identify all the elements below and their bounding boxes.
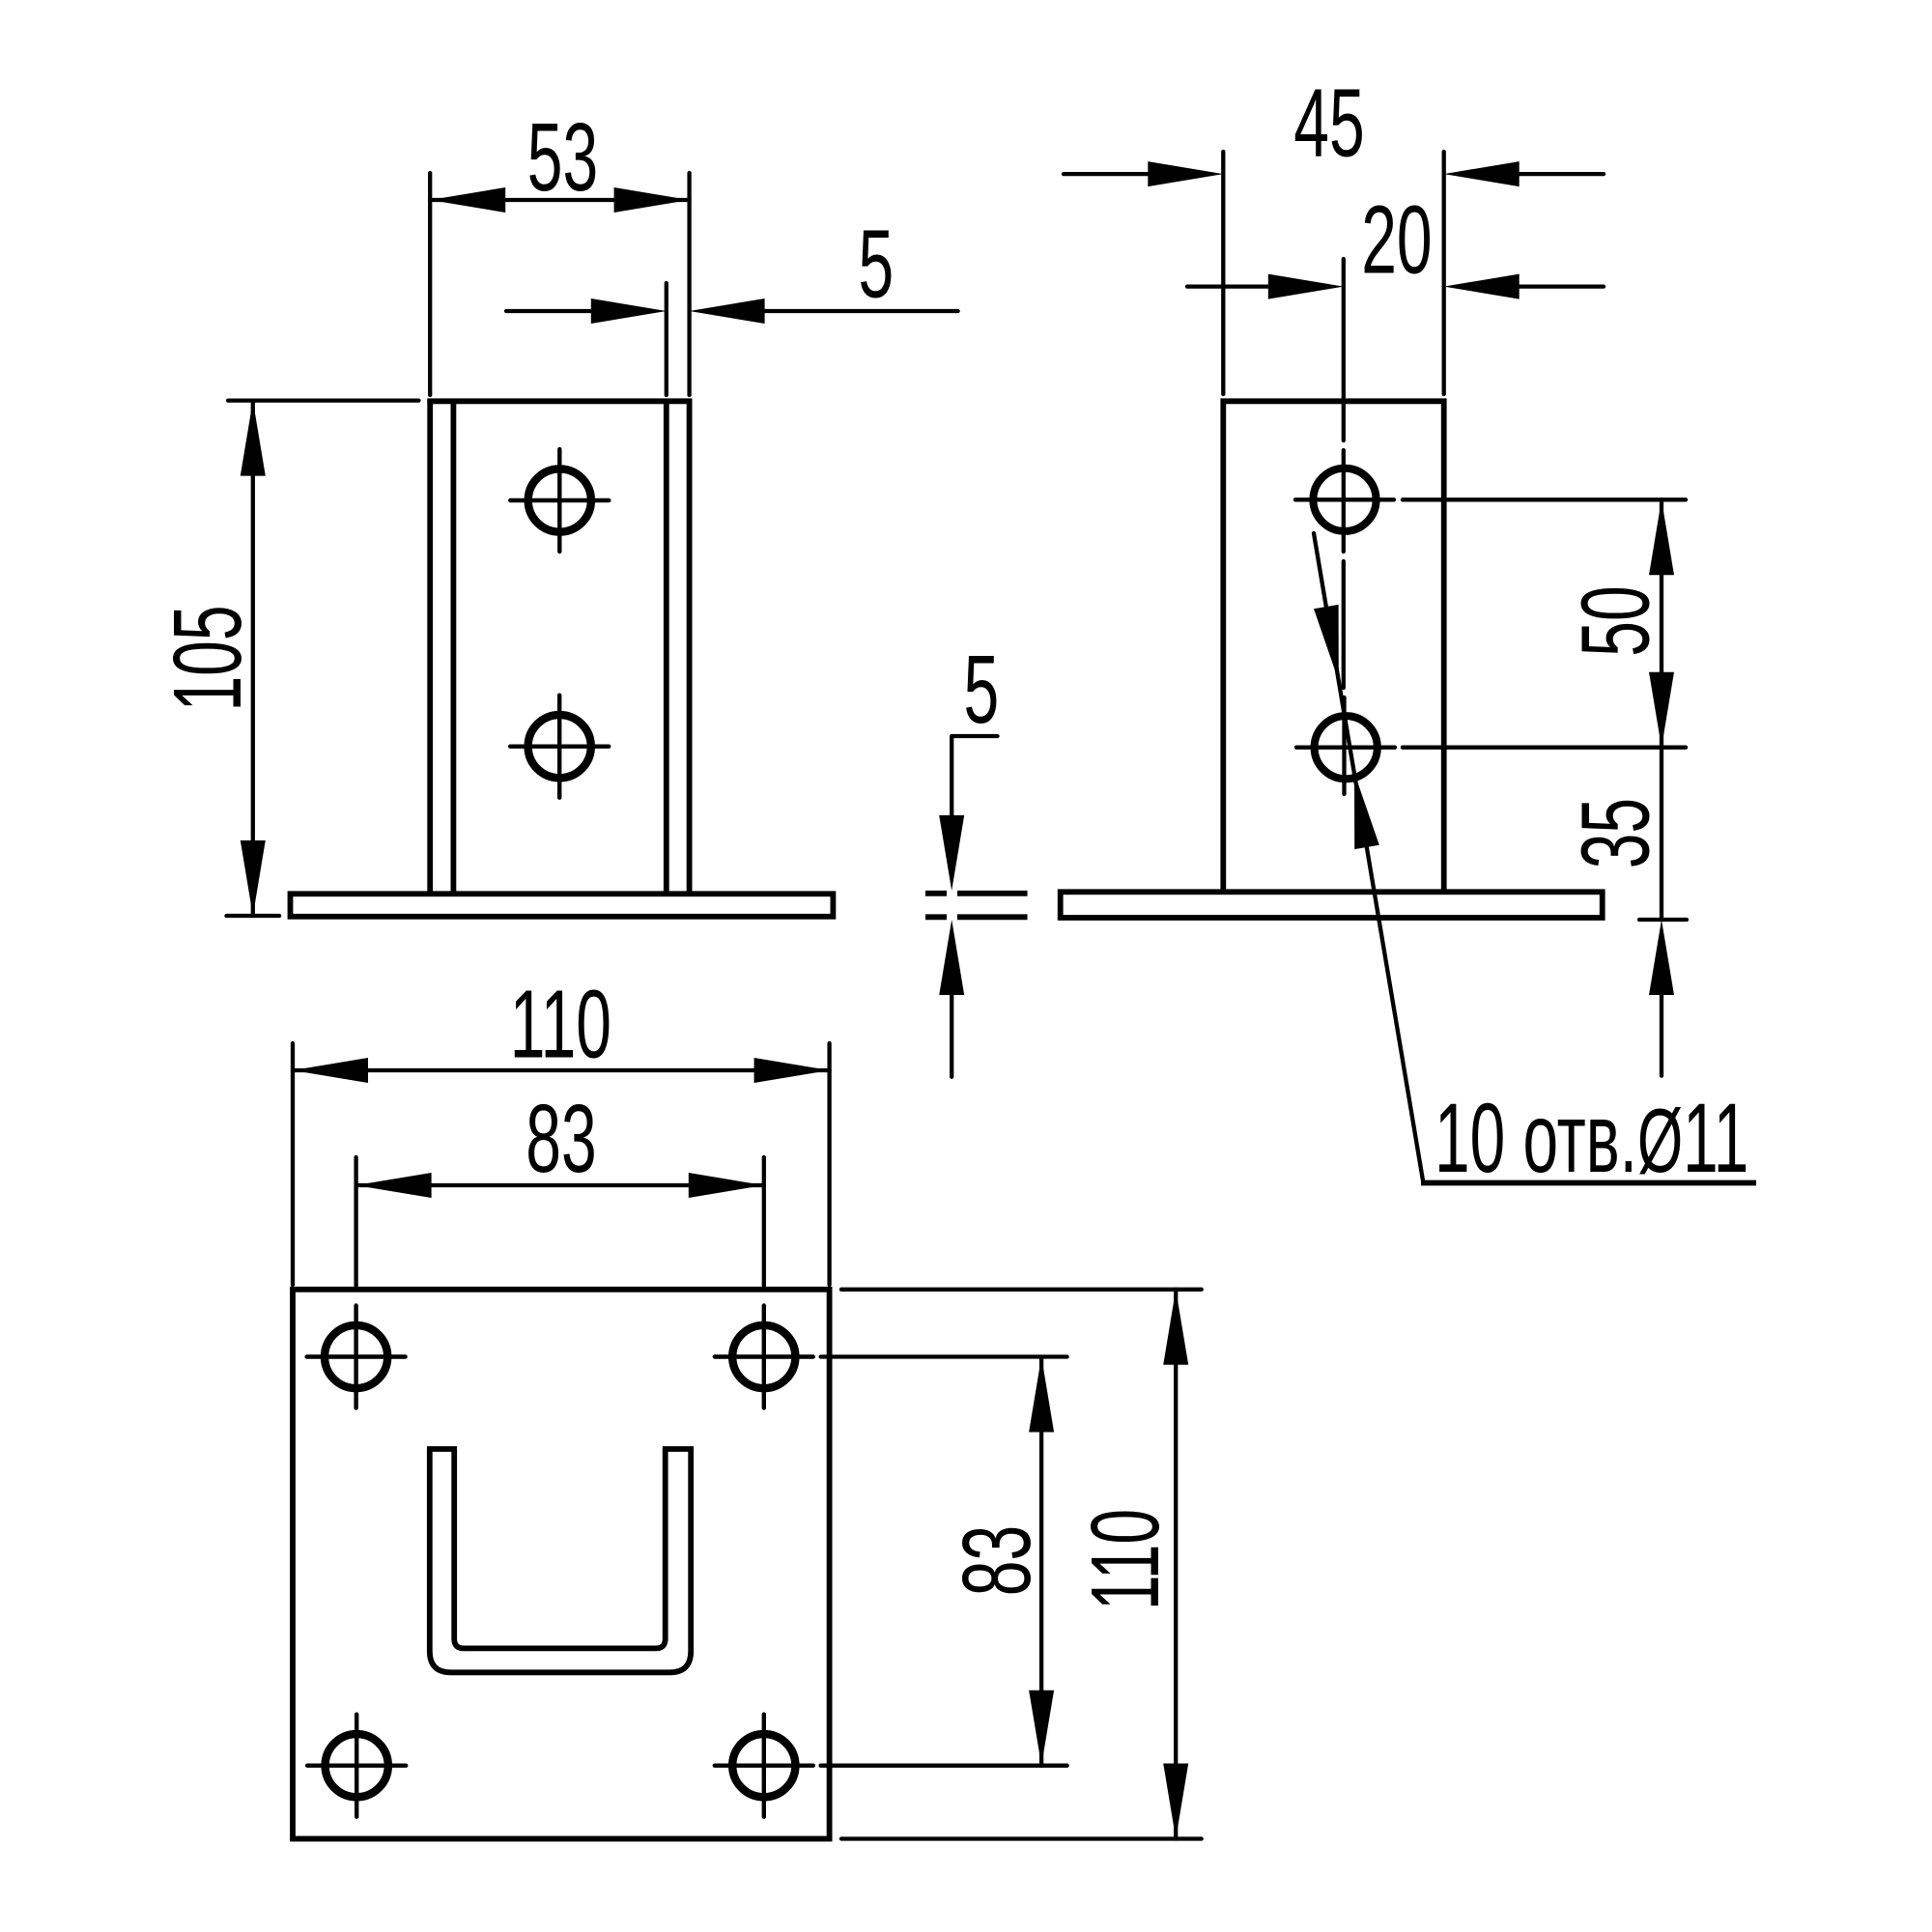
dim 5 front right tail line bbox=[764, 309, 958, 313]
dim 83 top text bbox=[526, 1084, 596, 1192]
side view vertical centerline segment 1 bbox=[1342, 259, 1346, 440]
dim 5 middle top tick bbox=[952, 734, 998, 738]
side view vertical centerline segment 2 bbox=[1342, 450, 1346, 552]
dim 45 left tail line bbox=[1064, 172, 1150, 176]
dim 83 right bottom arrowhead bbox=[1029, 1690, 1054, 1766]
leader lower arrowhead bbox=[1354, 773, 1379, 849]
hole H2 right extension line bbox=[1403, 746, 1686, 750]
dim 5 front right arrowhead bbox=[690, 298, 765, 324]
dim 110 top left arrowhead bbox=[293, 1058, 368, 1083]
front view hole H1 with center marks bbox=[510, 449, 609, 552]
dim 110 right upper extension line bbox=[841, 1288, 1202, 1292]
dim 5 middle upper arrowhead bbox=[939, 815, 964, 891]
leader text 10 otv diam 11 bbox=[1435, 1083, 1748, 1193]
svg-text:10 отв.Ø11: 10 отв.Ø11 bbox=[1435, 1083, 1748, 1193]
leader upper arrowhead bbox=[1314, 605, 1339, 681]
front view column left outer flange line bbox=[427, 399, 433, 895]
plan view channel left flange tip cap bbox=[427, 1446, 457, 1452]
dim 83 right top arrowhead bbox=[1029, 1357, 1054, 1433]
hole H1 right extension line bbox=[1403, 497, 1686, 501]
dim 53 right extension line bbox=[687, 173, 691, 395]
dim 20 left arrowhead bbox=[1268, 274, 1344, 299]
dim 35 text bbox=[1561, 798, 1669, 868]
dim 110 top text bbox=[510, 970, 611, 1078]
side view vertical centerline segment 4 bbox=[1342, 697, 1346, 794]
dim 45 right extension line bbox=[1442, 152, 1446, 394]
dim 83 top dimension line bbox=[356, 1183, 764, 1187]
dim 5 front left arrowhead bbox=[591, 298, 667, 324]
svg-text:110: 110 bbox=[1070, 1509, 1179, 1610]
leader line to holes bbox=[1314, 533, 1423, 1180]
plan view hole A with center marks bbox=[307, 1306, 406, 1408]
dim 53 left arrowhead bbox=[430, 187, 505, 213]
dim 83 top right extension line bbox=[762, 1157, 766, 1287]
dim 83 top left arrowhead bbox=[356, 1173, 432, 1198]
dim 5 front text bbox=[858, 210, 894, 318]
dim 53 text bbox=[527, 102, 598, 211]
svg-text:5: 5 bbox=[964, 635, 1000, 743]
dim 83 right upper extension line bbox=[821, 1354, 1067, 1358]
dim 105 top arrowhead bbox=[241, 401, 266, 476]
dim 105 dimension line bbox=[251, 401, 255, 916]
dim 20 left tail line bbox=[1187, 284, 1269, 288]
dim 105 top extension line bbox=[228, 398, 418, 402]
dim 83 top left extension line bbox=[354, 1157, 357, 1287]
side view column top edge bbox=[1221, 398, 1447, 404]
dim 45 right tail line bbox=[1518, 172, 1604, 176]
plan view hole D with center marks bbox=[715, 1715, 813, 1817]
plan view channel inner profile bbox=[454, 1449, 666, 1648]
svg-text:83: 83 bbox=[942, 1525, 1050, 1596]
side view hole H1 circle bbox=[1313, 469, 1376, 531]
svg-text:110: 110 bbox=[510, 970, 611, 1078]
middle plate section bottom line left part bbox=[925, 914, 947, 920]
plan view base plate outline bbox=[293, 1290, 830, 1839]
dim 53 left extension line bbox=[428, 173, 432, 395]
dim 50 bottom arrowhead bbox=[1649, 672, 1674, 748]
dim 35 dimension line bbox=[1660, 748, 1663, 920]
side view column left edge bbox=[1220, 399, 1226, 893]
dim 83 top right arrowhead bbox=[689, 1173, 764, 1198]
dim 50 text bbox=[1561, 585, 1669, 656]
svg-text:45: 45 bbox=[1293, 69, 1364, 177]
dim 5 middle upper leader line bbox=[950, 736, 953, 816]
dim 110 right text bbox=[1070, 1509, 1179, 1610]
front view column right outer flange line bbox=[687, 399, 693, 895]
svg-text:20: 20 bbox=[1361, 185, 1432, 294]
leader underline bbox=[1421, 1180, 1756, 1186]
dim 50 top arrowhead bbox=[1649, 499, 1674, 575]
dim 20 right arrowhead bbox=[1444, 274, 1520, 299]
dim 110 right top arrowhead bbox=[1163, 1290, 1188, 1365]
dim 53 dimension line bbox=[430, 198, 689, 202]
middle plate section top line right part bbox=[957, 891, 1028, 896]
dim 110 right dimension line bbox=[1174, 1290, 1178, 1839]
svg-text:53: 53 bbox=[527, 102, 598, 211]
dim 83 right lower extension line bbox=[821, 1764, 1067, 1768]
dim 110 right bottom arrowhead bbox=[1163, 1764, 1188, 1839]
dim 105 text bbox=[153, 605, 261, 711]
side view column right edge bbox=[1441, 399, 1447, 893]
plan view hole C with center marks bbox=[307, 1715, 406, 1817]
dim 20 right tail line bbox=[1518, 284, 1604, 288]
dim 83 right dimension line bbox=[1039, 1357, 1043, 1766]
front view hole H2 with center marks bbox=[510, 696, 609, 798]
plan view hole B with center marks bbox=[715, 1306, 813, 1408]
dim 45 text bbox=[1293, 69, 1364, 177]
dim 50 dimension line bbox=[1660, 499, 1663, 747]
side view vertical centerline segment 3 bbox=[1342, 561, 1346, 688]
svg-text:50: 50 bbox=[1561, 585, 1669, 656]
front view column top edge bbox=[427, 398, 692, 404]
dim 83 right text bbox=[942, 1525, 1050, 1596]
dim 5 front inner extension line bbox=[665, 283, 668, 395]
dim 110 right lower extension line bbox=[841, 1836, 1202, 1840]
side view hole H2 horizontal center mark bbox=[1296, 746, 1395, 750]
svg-text:5: 5 bbox=[858, 210, 894, 318]
plan view channel outer profile bbox=[430, 1449, 691, 1672]
dim 110 top right extension line bbox=[827, 1043, 831, 1285]
dim 5 front left tail line bbox=[506, 309, 591, 313]
dim 5 middle text bbox=[964, 635, 1000, 743]
dim 45 left arrowhead bbox=[1148, 161, 1223, 186]
dim 105 bottom extension tick bbox=[227, 914, 280, 918]
dim 110 top right arrowhead bbox=[754, 1058, 830, 1083]
dim 110 top dimension line bbox=[293, 1068, 830, 1072]
dim 105 bottom arrowhead bbox=[241, 840, 266, 916]
dim 53 right arrowhead bbox=[614, 187, 690, 213]
side view base plate bbox=[1061, 892, 1603, 918]
dim 5 middle lower tail line bbox=[950, 995, 953, 1077]
middle plate section bottom line right part bbox=[957, 914, 1028, 920]
front view column left inner flange line bbox=[450, 401, 456, 894]
svg-text:105: 105 bbox=[153, 605, 261, 711]
dim 35 bottom extension tick bbox=[1639, 918, 1687, 922]
middle plate section top line left part bbox=[925, 891, 947, 896]
svg-text:35: 35 bbox=[1561, 798, 1669, 868]
dim 20 text bbox=[1361, 185, 1432, 294]
side view hole H1 horizontal center mark bbox=[1295, 497, 1394, 501]
svg-text:83: 83 bbox=[526, 1084, 596, 1192]
front view column right inner flange line bbox=[664, 401, 669, 894]
dim 5 middle lower arrowhead bbox=[939, 920, 964, 995]
dim 35 bottom tail line bbox=[1660, 995, 1663, 1076]
side view hole H2 circle bbox=[1315, 716, 1378, 779]
plan view channel right flange tip cap bbox=[663, 1446, 694, 1452]
dim 110 top left extension line bbox=[291, 1043, 295, 1285]
dim 45 left extension line bbox=[1221, 152, 1225, 394]
dim 35 bottom arrowhead bbox=[1649, 920, 1674, 995]
front view base plate bbox=[291, 894, 834, 917]
dim 45 right arrowhead bbox=[1444, 161, 1520, 186]
